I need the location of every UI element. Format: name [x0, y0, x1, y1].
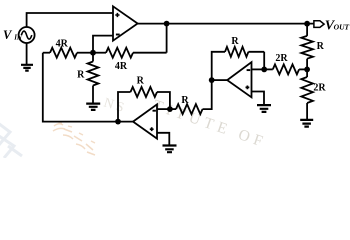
- wire U3 + input to ground: [157, 133, 169, 145]
- wire left rail / bottom rail (U3 output to 4R): [43, 53, 134, 122]
- node B junction: [304, 67, 310, 73]
- svg-text:4R: 4R: [115, 61, 128, 72]
- svg-text:R: R: [181, 95, 189, 106]
- resistor 4R (input, left): [43, 52, 50, 54]
- resistor R (node A to ground): [92, 53, 94, 62]
- node U2 minus input junction: [261, 67, 267, 73]
- resistor R (feedback of U3): [131, 87, 158, 97]
- node V_OUT junction: [304, 21, 310, 27]
- ground (node A resistor): [86, 104, 100, 110]
- svg-text:2R: 2R: [275, 53, 288, 64]
- wire V_IN bottom to ground: [26, 43, 28, 65]
- port symbol V_OUT: [314, 21, 324, 28]
- resistor 4R (feedback of U1): [93, 52, 106, 54]
- wire U2 output: [212, 79, 228, 81]
- svg-text:2R: 2R: [313, 83, 326, 94]
- wire U3 - input: [157, 108, 170, 110]
- ground (U2 +): [257, 105, 271, 112]
- node U3 output junction: [115, 119, 121, 125]
- watermark background: [0, 95, 269, 158]
- resistor R (feedback of U2): [225, 47, 248, 57]
- wire U2 - input: [252, 68, 265, 70]
- wire node A to op-amp U1 - input: [93, 36, 112, 53]
- svg-text:V: V: [3, 28, 13, 42]
- ground (U3 +): [163, 146, 177, 153]
- ground (V_IN): [21, 65, 33, 71]
- resistor 2R (node B to ground): [306, 69, 308, 77]
- resistor R (V_OUT to node B): [306, 24, 308, 36]
- ground (2R): [300, 120, 313, 127]
- op-amp U1: [113, 6, 138, 40]
- svg-text:R: R: [77, 70, 85, 81]
- svg-text:4R: 4R: [56, 38, 69, 49]
- voltage source V_IN: [19, 27, 35, 43]
- wire feedback loop of U3 (up-left leg): [118, 92, 131, 122]
- resistor 2R (U2 - input to node B): [264, 68, 273, 70]
- node op1 output junction: [164, 21, 170, 27]
- svg-text:OUT: OUT: [334, 23, 350, 32]
- node A: [90, 50, 96, 56]
- resistor R (U2 output to U3 - input): [170, 108, 176, 110]
- wire feedback loop of U2 (left leg): [212, 52, 225, 80]
- node U3 minus input junction: [167, 106, 173, 112]
- svg-text:IN: IN: [13, 33, 23, 41]
- svg-text:R: R: [137, 76, 145, 87]
- wire U2 + input to ground: [252, 92, 265, 105]
- svg-text:NS: NS: [102, 95, 129, 116]
- wire V_IN top to op-amp U1 + input: [27, 13, 113, 27]
- op-amp U2 (points left): [227, 62, 251, 97]
- wire feedback leg down from op1 output: [166, 24, 168, 53]
- node U2 output junction: [209, 77, 215, 83]
- svg-text:R: R: [317, 41, 325, 52]
- wire op-amp U1 output rail to V_OUT: [137, 23, 314, 25]
- op-amp U3 (points left): [133, 104, 157, 138]
- svg-text:R: R: [231, 36, 239, 47]
